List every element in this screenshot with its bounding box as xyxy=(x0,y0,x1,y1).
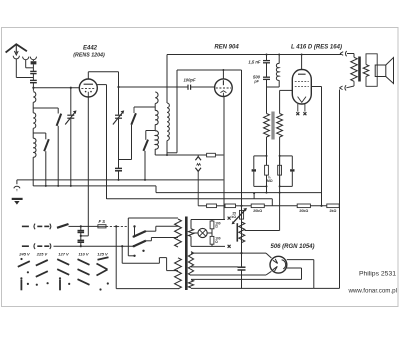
wire xyxy=(119,159,132,161)
selector col1 xyxy=(20,258,22,260)
svg-text:110 V: 110 V xyxy=(78,252,88,257)
potentiometer R4 wiper xyxy=(233,210,245,223)
tube U2 REN904 xyxy=(215,79,233,97)
choke L5 core xyxy=(236,223,238,241)
resistor R6 xyxy=(225,204,236,208)
resistor R2 xyxy=(265,165,269,175)
wire HT bottom to anode xyxy=(191,274,266,276)
potentiometer R4 xyxy=(240,210,244,219)
wire T2 sec down xyxy=(279,137,281,193)
capacitor C5 100pF xyxy=(187,85,189,90)
wire xyxy=(32,128,34,138)
wire xyxy=(32,64,34,71)
resistor R5 xyxy=(207,204,217,208)
svg-text:REN 904: REN 904 xyxy=(214,45,239,51)
resistor R8 20k xyxy=(297,204,310,208)
capacitor C7 500pF xyxy=(263,76,270,78)
wire U1 cathode down xyxy=(87,97,89,236)
wire top bus xyxy=(167,54,341,56)
tube U4 506 xyxy=(270,256,287,273)
switch S1 blade b xyxy=(134,241,146,247)
switch S5 blade xyxy=(143,140,148,151)
capacitor C9 xyxy=(291,156,293,169)
wire T2 pri down xyxy=(266,137,268,165)
wire xyxy=(154,149,156,155)
resistor R3 xyxy=(278,165,282,175)
wire xyxy=(198,205,206,207)
choke L4 xyxy=(278,54,280,56)
selector col5 xyxy=(98,257,109,260)
coil L3 xyxy=(167,103,169,141)
heater pin x2 xyxy=(304,104,306,112)
wire U3 grid right xyxy=(311,86,321,88)
svg-text:1,5 nF: 1,5 nF xyxy=(248,59,261,64)
coil L1a xyxy=(33,92,36,103)
heater x4 xyxy=(228,245,231,248)
transformer T1 primary lower xyxy=(175,258,182,289)
coil L1b xyxy=(33,113,36,129)
svg-text:MΩ: MΩ xyxy=(267,179,273,183)
fuse FS xyxy=(81,225,98,227)
wire hook2 to junction xyxy=(25,61,27,68)
switch S4 blade xyxy=(133,107,135,113)
wire hook1 to junction xyxy=(15,59,17,78)
wire xyxy=(154,104,156,111)
wire U3 anode xyxy=(301,55,303,70)
resistor R11 100ohm xyxy=(210,236,214,244)
wire filament top xyxy=(191,219,225,221)
capacitor C3 xyxy=(30,79,37,81)
wire HT vertical xyxy=(241,70,243,267)
wire xyxy=(32,102,34,113)
transformer T2 secondary xyxy=(277,114,283,138)
svg-text:20kΩ: 20kΩ xyxy=(299,209,308,213)
capacitor C2 xyxy=(30,70,36,72)
selector col4 xyxy=(78,259,90,265)
switch S1 box xyxy=(127,218,129,256)
capacitor C1 (antenna, hatched) xyxy=(31,61,37,64)
capacitor C4 xyxy=(118,160,120,169)
anode clip 2 xyxy=(339,86,342,90)
wire U1 anode up xyxy=(87,72,89,79)
wire B+ down xyxy=(339,90,341,289)
wire xyxy=(217,205,226,207)
svg-text:L 416 D (RES 164): L 416 D (RES 164) xyxy=(291,45,342,51)
antenna tap hook 1 xyxy=(13,56,19,59)
wire tap 2 xyxy=(33,132,46,134)
selector col2 xyxy=(36,260,48,266)
speaker LS xyxy=(375,65,386,77)
coil L2c xyxy=(155,131,158,149)
wire choke tap xyxy=(245,230,280,232)
wire bus3 xyxy=(156,192,322,194)
resistor R1 xyxy=(207,153,216,157)
wire coil bottom to bus xyxy=(32,157,34,186)
wire xyxy=(166,141,168,155)
antenna tap hook 3 xyxy=(30,57,36,60)
wire tap 4 xyxy=(146,130,155,132)
wire xyxy=(154,125,156,132)
wire xyxy=(267,86,280,88)
wire U1 screen xyxy=(97,84,106,86)
transformer T1 core xyxy=(185,217,188,291)
resistor R7 20k xyxy=(251,204,264,208)
wire xyxy=(310,205,326,207)
wire loop left bottom xyxy=(254,185,267,187)
tube U3 L416D xyxy=(292,70,311,105)
transformer T2 primary xyxy=(264,114,270,138)
wire anode line to 100pF xyxy=(119,86,188,88)
switch S6 mains blade xyxy=(57,224,69,228)
pickup jack J1 xyxy=(197,155,199,156)
svg-text:kΩ: kΩ xyxy=(232,215,237,219)
wire tap 1 xyxy=(33,107,58,109)
switch S3 blade xyxy=(44,139,49,151)
transformer T1 HT winding xyxy=(188,252,193,276)
ground xyxy=(16,180,18,184)
wire loop right top xyxy=(280,155,293,157)
variable capacitor VC1 xyxy=(70,87,72,89)
svg-text:F S: F S xyxy=(99,219,106,224)
variable capacitor VC2 xyxy=(115,114,122,116)
lamp LA1 xyxy=(198,228,207,237)
wire heater bus a xyxy=(191,278,302,280)
svg-text:225 V: 225 V xyxy=(36,252,48,257)
coil L1c xyxy=(33,138,36,157)
svg-text:2kΩ: 2kΩ xyxy=(330,209,337,213)
wire rectifier out 2 xyxy=(287,267,302,269)
resistor R9 2k xyxy=(327,204,339,208)
wire grid bus to U1 xyxy=(33,87,79,89)
transformer T3 primary xyxy=(351,57,357,81)
wire chassis bus xyxy=(17,179,224,181)
transformer T1 primary upper xyxy=(175,219,182,247)
mains plug P2 xyxy=(22,245,29,247)
transformer T3 secondary xyxy=(363,65,369,77)
wire top line corner xyxy=(166,55,168,104)
wire HT top to anode xyxy=(191,252,266,254)
wire grid box right xyxy=(176,70,178,153)
svg-text:125 V: 125 V xyxy=(97,252,108,257)
svg-text:pF: pF xyxy=(253,80,259,84)
wire U2 cathode down xyxy=(223,96,225,219)
svg-text:20kΩ: 20kΩ xyxy=(253,209,262,213)
wire xyxy=(32,83,34,91)
svg-text:E442: E442 xyxy=(83,45,98,51)
wire U1 anode branch down xyxy=(118,72,120,115)
resistor R10 100ohm xyxy=(211,220,213,222)
switch S1 contacts xyxy=(133,225,135,227)
wire dashed to switch xyxy=(106,225,116,227)
wire xyxy=(155,154,206,156)
svg-text:100pF: 100pF xyxy=(183,78,196,83)
wire rectifier out 1 xyxy=(287,259,314,261)
wire xyxy=(264,205,297,207)
transformer T2 core xyxy=(271,112,273,140)
wire HT center tap xyxy=(191,266,238,268)
wire xyxy=(190,220,192,229)
wire U2 anode xyxy=(222,70,224,79)
transformer T1 heater winding 2 xyxy=(188,280,193,288)
wire selector loop xyxy=(121,246,123,263)
wire filament bottom xyxy=(191,245,225,247)
wire xyxy=(215,154,223,156)
mains plug P1 xyxy=(22,225,29,227)
wire selector feed xyxy=(115,226,117,288)
choke L5 winding xyxy=(239,222,245,242)
selector col3 xyxy=(57,259,69,265)
tube U1 E442 xyxy=(79,79,97,97)
wire xyxy=(236,205,252,207)
svg-text:Philips 2531: Philips 2531 xyxy=(359,271,396,278)
capacitor C8 xyxy=(253,156,255,169)
svg-text:Ω: Ω xyxy=(215,240,218,244)
heater x3 xyxy=(228,217,231,220)
svg-text:127 V: 127 V xyxy=(58,252,69,257)
transformer T1 heater winding 1 xyxy=(188,229,193,237)
wire bus2 xyxy=(33,185,156,187)
transformer T3 core xyxy=(358,57,361,82)
svg-text:506 (RGN 1054): 506 (RGN 1054) xyxy=(270,244,314,250)
capacitor C12 xyxy=(238,266,246,268)
wire loop left top xyxy=(254,155,267,157)
switch S2 blade xyxy=(57,114,62,126)
capacitor C6 1.5nF xyxy=(266,54,268,56)
anode clip 1 xyxy=(340,52,343,56)
svg-text:245 V: 245 V xyxy=(18,252,30,257)
wire heater bus b xyxy=(191,287,314,289)
wire xyxy=(32,74,34,80)
wire blade b out xyxy=(146,240,152,242)
heater pin x1 xyxy=(297,104,299,112)
coil L2a xyxy=(155,92,158,104)
capacitor C11 xyxy=(78,239,85,241)
wire screen feed xyxy=(107,198,273,200)
svg-text:www.fonar.com.pl: www.fonar.com.pl xyxy=(348,288,398,295)
switch S1 blade a xyxy=(134,231,146,237)
wire speaker loop xyxy=(366,54,377,87)
wire loop right bottom xyxy=(280,185,293,187)
wire blade a out xyxy=(146,230,156,232)
choke L5 lead xyxy=(241,219,243,222)
svg-text:(RENS 1204): (RENS 1204) xyxy=(73,52,105,58)
svg-text:Ω: Ω xyxy=(215,225,218,229)
wire y70 line xyxy=(177,69,242,71)
antenna tap hook 2 xyxy=(23,57,29,60)
wire tap 3 xyxy=(134,106,155,108)
antenna xyxy=(6,44,27,52)
coil L2b xyxy=(155,110,158,124)
wire xyxy=(266,175,268,193)
wire T2 sec to U3 grid xyxy=(279,90,281,113)
capacitor C10 xyxy=(80,225,82,227)
